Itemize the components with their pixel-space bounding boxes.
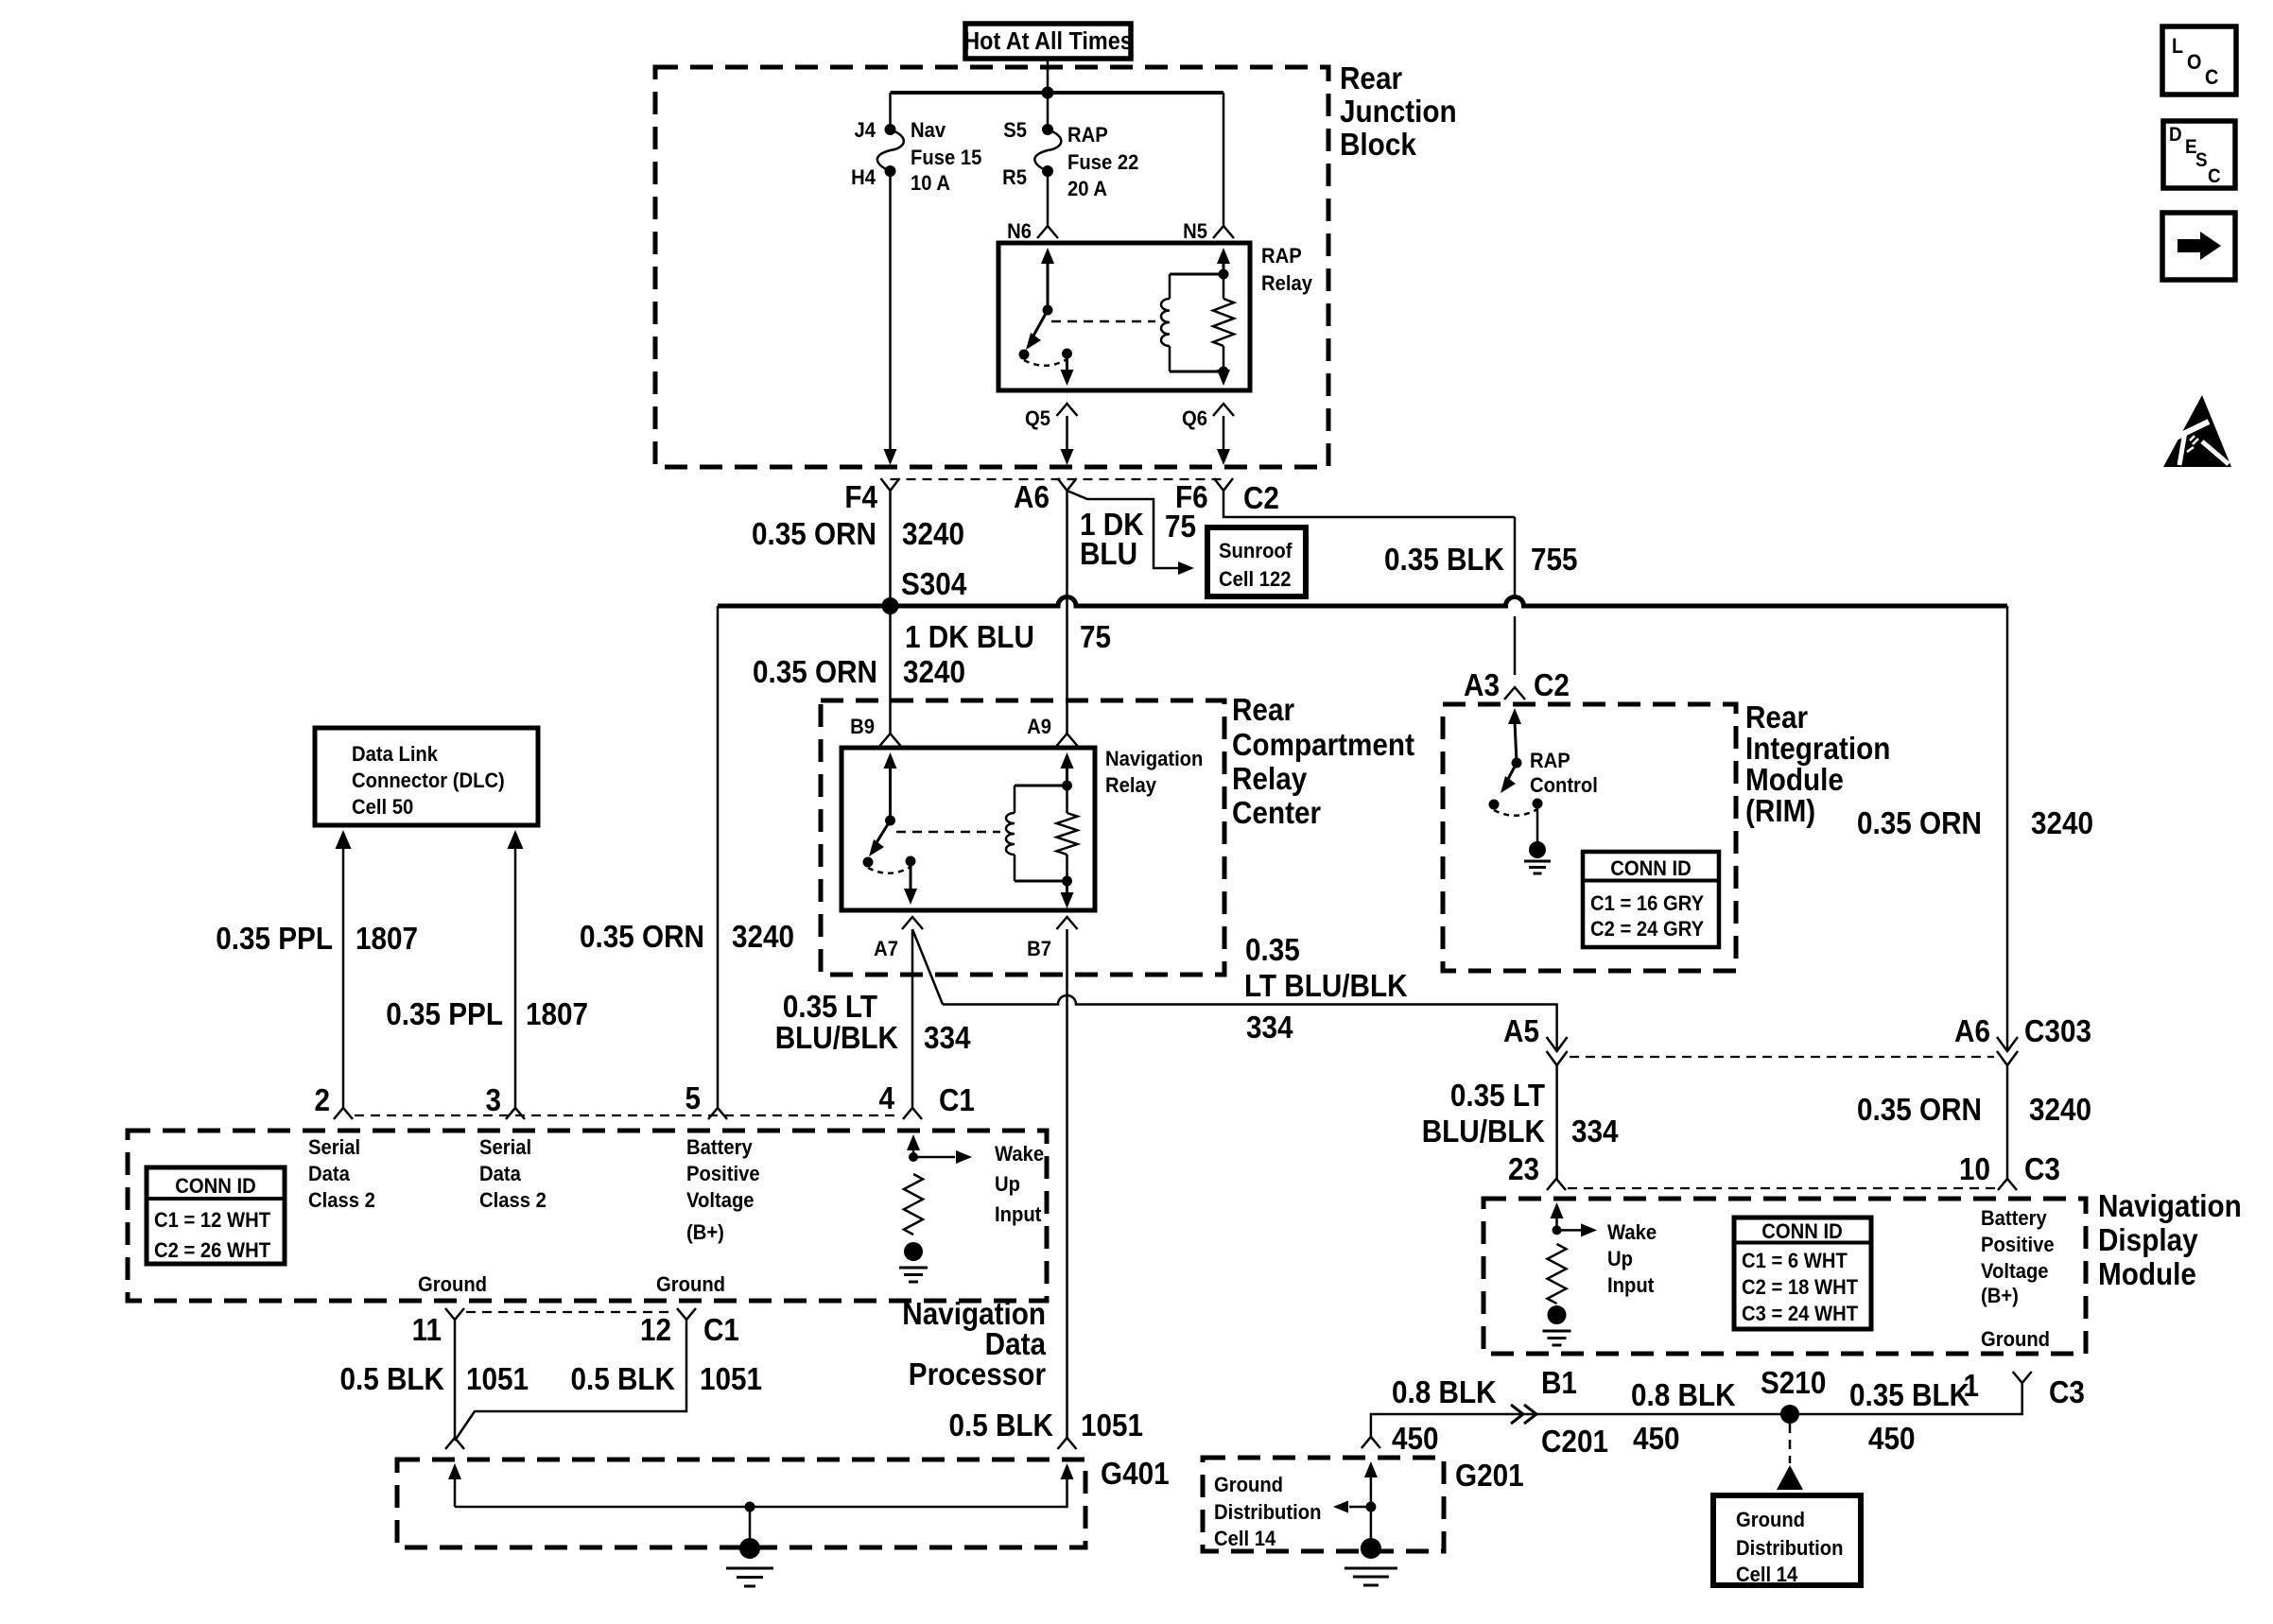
nav relay link dashed [896, 831, 1000, 834]
svg-text:11: 11 [412, 1313, 442, 1348]
svg-text:Voltage: Voltage [1981, 1260, 2049, 1283]
svg-text:RAP: RAP [1261, 245, 1302, 268]
svg-text:23: 23 [1508, 1152, 1539, 1187]
legend arrow box [2162, 213, 2235, 280]
svg-text:BLU/BLK: BLU/BLK [775, 1021, 899, 1056]
svg-text:Input: Input [995, 1203, 1041, 1226]
svg-text:450: 450 [1392, 1422, 1439, 1457]
ESD warning triangle [2163, 395, 2231, 467]
wire A5 to pin23 [1555, 1065, 1558, 1179]
svg-text:C1: C1 [939, 1083, 975, 1118]
RAP relay link dashed [1051, 320, 1155, 323]
svg-text:3240: 3240 [732, 920, 794, 955]
svg-text:C2: C2 [1243, 481, 1279, 516]
wire pin3 to DLC [508, 830, 524, 849]
svg-text:(B+): (B+) [1981, 1285, 2019, 1307]
connector line ndp bottom [466, 1311, 675, 1313]
svg-text:0.5 BLK: 0.5 BLK [948, 1408, 1053, 1443]
ndm wake node [1553, 1225, 1562, 1235]
G401 ground [739, 1538, 760, 1559]
nav relay contact arc [868, 867, 911, 873]
svg-text:C2 = 18 WHT: C2 = 18 WHT [1742, 1276, 1858, 1299]
svg-text:C1 = 12 WHT: C1 = 12 WHT [154, 1209, 270, 1232]
svg-text:Class 2: Class 2 [479, 1189, 547, 1212]
RAP control pin arrow [1508, 708, 1521, 724]
connector line ndp top [355, 1114, 901, 1116]
RAP control pivot [1512, 758, 1522, 769]
svg-text:3: 3 [485, 1083, 501, 1118]
connector A6 C303 [1997, 1037, 2018, 1051]
svg-text:G201: G201 [1455, 1459, 1524, 1494]
wire top bus [891, 91, 1224, 95]
connector A9 [1057, 734, 1078, 746]
legend DESC box [2163, 121, 2235, 188]
svg-text:10: 10 [1959, 1152, 1990, 1187]
wire pin2 to DLC [336, 830, 352, 849]
svg-text:Data: Data [308, 1163, 350, 1185]
RAP relay out Q5 [1066, 354, 1068, 371]
connector pin11 [445, 1308, 464, 1320]
nav relay coil [1014, 786, 1016, 813]
connector pin12 [677, 1308, 696, 1320]
svg-text:3240: 3240 [903, 655, 965, 690]
module box G201 [1203, 1458, 1444, 1551]
RAP relay pin N6 arrow [1041, 248, 1054, 264]
connector G401 left [445, 1438, 464, 1449]
svg-text:CONN ID: CONN ID [1761, 1220, 1842, 1243]
callout box Ground Distribution Cell 14 [1713, 1495, 1861, 1585]
svg-text:Up: Up [995, 1173, 1020, 1196]
ndp wake ground [904, 1242, 923, 1261]
svg-text:Cell 50: Cell 50 [352, 796, 413, 819]
wire A7 diagonal [912, 929, 943, 1005]
connector C2 rjb [1214, 478, 1233, 491]
fuse F2 RAP Fuse 22 [1042, 124, 1053, 135]
svg-text:S5: S5 [1003, 119, 1027, 142]
svg-text:LT BLU/BLK: LT BLU/BLK [1244, 969, 1408, 1004]
connector line ndm top [1568, 1187, 1996, 1189]
svg-text:12: 12 [640, 1313, 671, 1348]
connector pin1 C3 [2013, 1372, 2032, 1383]
RAP relay pin N5 arrow [1217, 248, 1230, 264]
module box Rear Integration Module [1443, 704, 1736, 971]
module box Rear Junction Block [655, 67, 1328, 467]
svg-text:450: 450 [1868, 1422, 1916, 1457]
connector pin10 [1998, 1179, 2017, 1190]
G401 node [745, 1502, 755, 1512]
svg-text:0.35 BLK: 0.35 BLK [1849, 1378, 1969, 1413]
svg-text:C2: C2 [1534, 668, 1570, 703]
svg-text:C3 = 24 WHT: C3 = 24 WHT [1742, 1303, 1858, 1325]
svg-text:Cell 14: Cell 14 [1736, 1564, 1797, 1586]
svg-text:N5: N5 [1183, 220, 1207, 243]
wire ndm ground run [1371, 1383, 2022, 1437]
svg-text:C303: C303 [2024, 1014, 2091, 1049]
RAP relay out Q6 [1223, 371, 1225, 373]
svg-text:B1: B1 [1541, 1366, 1577, 1401]
G201 node [1365, 1502, 1376, 1512]
wire Q6 drop [1223, 416, 1225, 452]
ndp wake arrow up [907, 1134, 920, 1150]
G201 left arrow [1349, 1506, 1371, 1509]
svg-text:0.35 ORN: 0.35 ORN [753, 655, 877, 690]
svg-text:5: 5 [685, 1081, 701, 1116]
svg-text:3240: 3240 [902, 517, 964, 552]
connector pin4 [903, 1108, 922, 1119]
nav relay resistor [1057, 813, 1078, 855]
svg-text:(B+): (B+) [686, 1221, 724, 1244]
G401 bus [455, 1477, 1067, 1507]
wire S304 bus [718, 597, 2007, 607]
svg-text:1807: 1807 [356, 922, 418, 957]
RAP relay resistor [1213, 299, 1234, 346]
svg-text:Ground: Ground [1981, 1328, 2050, 1351]
wire A6 to A9 [1066, 491, 1068, 734]
svg-text:C2 = 24 GRY: C2 = 24 GRY [1590, 918, 1704, 941]
connector pin5 [708, 1108, 727, 1119]
svg-text:Navigation: Navigation [1105, 748, 1203, 770]
connector Q6 [1213, 404, 1234, 416]
svg-text:3240: 3240 [2029, 1093, 2091, 1128]
nav relay contact a [863, 857, 874, 868]
connector B7 [1057, 917, 1078, 929]
conn id box NDP [147, 1167, 285, 1264]
svg-text:C201: C201 [1541, 1425, 1608, 1460]
wire N5 feed [1223, 93, 1225, 226]
relay box RAP Relay [998, 243, 1250, 390]
connector N5 [1213, 226, 1234, 238]
svg-text:Nav: Nav [911, 119, 946, 142]
svg-text:0.35 ORN: 0.35 ORN [1857, 806, 1982, 841]
svg-text:Center: Center [1232, 796, 1321, 831]
callout box Sunroof Cell 122 [1207, 527, 1306, 596]
svg-text:1051: 1051 [1081, 1408, 1143, 1443]
wire B9 seg [889, 606, 892, 734]
wire 334 run [943, 995, 1557, 1051]
svg-text:C2 = 26 WHT: C2 = 26 WHT [154, 1239, 270, 1262]
wire F4 drop [889, 171, 892, 452]
svg-text:0.35 PPL: 0.35 PPL [386, 997, 503, 1032]
module box G401 [397, 1460, 1085, 1547]
svg-text:C1 = 16 GRY: C1 = 16 GRY [1590, 892, 1704, 915]
svg-text:Fuse 15: Fuse 15 [911, 147, 982, 169]
RAP control ground [1529, 841, 1546, 858]
svg-text:0.35: 0.35 [1245, 933, 1300, 968]
svg-text:S: S [2195, 149, 2208, 171]
connector G401 right [1058, 1438, 1077, 1449]
svg-text:F4: F4 [844, 480, 877, 515]
arrow C2 at RJB edge [1217, 449, 1230, 465]
RAP relay switch blade [1032, 310, 1048, 337]
wire A6 to pin10 [2006, 1065, 2009, 1179]
node S210 [1780, 1405, 1799, 1424]
svg-text:Module: Module [2098, 1257, 2196, 1292]
svg-text:L: L [2172, 35, 2183, 58]
svg-text:(RIM): (RIM) [1745, 794, 1815, 829]
connector pin3 [506, 1108, 525, 1119]
G401 left arrow [448, 1463, 461, 1479]
svg-text:Relay: Relay [1232, 762, 1308, 797]
connector A3 C2 [1504, 687, 1525, 700]
nav relay out A7 [910, 861, 912, 890]
svg-text:Positive: Positive [686, 1163, 760, 1185]
wire F4 to S304 [889, 491, 892, 606]
svg-text:C: C [2208, 165, 2221, 187]
RAP relay switch pivot [1043, 305, 1053, 316]
wire fuse1 feed [889, 93, 892, 130]
svg-text:C3: C3 [2024, 1152, 2060, 1187]
connector line C303 [1570, 1056, 1994, 1058]
svg-text:CONN ID: CONN ID [175, 1175, 255, 1198]
G201 ground [1361, 1538, 1381, 1559]
svg-text:0.35 ORN: 0.35 ORN [1857, 1093, 1982, 1128]
connector pin2 [334, 1108, 353, 1119]
svg-text:0.8 BLK: 0.8 BLK [1631, 1378, 1736, 1413]
S210 dashed stub [1789, 1424, 1792, 1463]
wire B7 drop [1066, 929, 1068, 1438]
RAP control ground wire [1536, 803, 1539, 844]
svg-text:Wake: Wake [1607, 1221, 1657, 1244]
svg-text:Serial: Serial [308, 1136, 360, 1159]
svg-text:1 DK BLU: 1 DK BLU [905, 620, 1034, 655]
power label box Hot At All Times [965, 24, 1131, 59]
svg-text:C1 = 6 WHT: C1 = 6 WHT [1742, 1250, 1848, 1272]
svg-text:A6: A6 [1014, 480, 1050, 515]
connector N6 [1037, 226, 1058, 238]
svg-text:Display: Display [2098, 1223, 2198, 1258]
RAP control blade [1507, 763, 1517, 781]
RAP relay contact b [1062, 349, 1072, 359]
connector A6 [1058, 478, 1077, 491]
svg-text:0.35 LT: 0.35 LT [1450, 1079, 1545, 1114]
svg-text:RAP: RAP [1530, 750, 1570, 772]
svg-text:334: 334 [1571, 1114, 1619, 1149]
svg-text:Rear: Rear [1232, 693, 1294, 728]
svg-text:Connector (DLC): Connector (DLC) [352, 769, 505, 792]
svg-text:Wake: Wake [995, 1143, 1044, 1166]
svg-text:Serial: Serial [479, 1136, 531, 1159]
svg-text:S210: S210 [1761, 1366, 1826, 1401]
wire hot feed [1047, 59, 1050, 93]
svg-text:Ground: Ground [1736, 1509, 1805, 1531]
connector F4 [881, 478, 900, 491]
svg-text:A5: A5 [1503, 1014, 1539, 1049]
svg-text:D: D [2169, 124, 2182, 146]
ndm wake resistor [1548, 1244, 1567, 1304]
wire bus right drop [2006, 606, 2009, 1051]
svg-text:20 A: 20 A [1067, 178, 1107, 200]
svg-text:Distribution: Distribution [1214, 1501, 1321, 1524]
wire bus left drop [717, 606, 720, 1108]
wire pin12 jog [455, 1320, 686, 1441]
G401 ground stem [749, 1507, 752, 1541]
svg-text:Relay: Relay [1261, 272, 1312, 295]
nav relay switch pivot [885, 816, 895, 826]
svg-text:Up: Up [1607, 1248, 1633, 1270]
svg-text:0.35 PPL: 0.35 PPL [216, 922, 333, 957]
svg-text:Q6: Q6 [1182, 407, 1207, 430]
svg-text:C3: C3 [2049, 1375, 2085, 1410]
callout box Data Link Connector [315, 728, 538, 825]
svg-text:A7: A7 [874, 938, 898, 960]
RAP relay contact arc [1024, 359, 1067, 366]
svg-text:A6: A6 [1954, 1014, 1990, 1049]
svg-text:Block: Block [1340, 128, 1416, 163]
arrow A6 at RJB edge [1061, 449, 1074, 465]
conn id box RIM [1583, 852, 1719, 947]
RAP relay contact a [1019, 350, 1030, 360]
svg-text:Hot At All Times: Hot At All Times [963, 28, 1132, 55]
nav relay node top [1062, 781, 1072, 791]
svg-text:Voltage: Voltage [686, 1189, 755, 1212]
svg-text:0.35 LT: 0.35 LT [783, 990, 877, 1025]
svg-text:Fuse 22: Fuse 22 [1067, 151, 1138, 174]
fuse F1 Nav Fuse 15 [885, 124, 896, 135]
svg-text:N6: N6 [1007, 220, 1032, 243]
svg-text:0.5 BLK: 0.5 BLK [339, 1362, 444, 1397]
svg-text:Relay: Relay [1105, 774, 1156, 797]
legend LOC box [2162, 26, 2236, 95]
svg-text:RAP: RAP [1067, 124, 1108, 147]
svg-text:Module: Module [1745, 763, 1844, 798]
svg-text:334: 334 [924, 1021, 971, 1056]
connector pin23 [1547, 1179, 1566, 1190]
wire Q5 drop [1066, 416, 1068, 452]
svg-text:Class 2: Class 2 [308, 1189, 375, 1212]
svg-text:Sunroof: Sunroof [1219, 540, 1293, 562]
svg-text:B7: B7 [1027, 938, 1051, 960]
svg-text:Ground: Ground [656, 1273, 725, 1296]
connector A5 [1547, 1037, 1568, 1051]
connector A7 [902, 917, 923, 929]
nav relay contact b [906, 856, 916, 867]
svg-text:Q5: Q5 [1025, 407, 1050, 430]
nav relay pin A9 arrow [1061, 752, 1074, 769]
ndp wake right arrow [913, 1156, 955, 1159]
arrow F4 at RJB edge [884, 449, 897, 465]
svg-text:75: 75 [1080, 620, 1111, 655]
svg-text:Control: Control [1530, 774, 1598, 797]
svg-text:755: 755 [1531, 543, 1578, 578]
wire pin11 drop [454, 1320, 457, 1438]
nav relay coil bottom wire [1015, 880, 1067, 883]
svg-text:3240: 3240 [2031, 806, 2093, 841]
svg-text:Navigation: Navigation [2098, 1189, 2242, 1224]
svg-text:4: 4 [878, 1081, 894, 1116]
svg-text:450: 450 [1633, 1422, 1680, 1457]
svg-text:A9: A9 [1027, 716, 1051, 738]
node S304 [882, 597, 899, 614]
svg-text:J4: J4 [854, 119, 876, 142]
svg-text:BLU/BLK: BLU/BLK [1422, 1114, 1546, 1149]
svg-text:0.5 BLK: 0.5 BLK [570, 1362, 675, 1397]
RAP control contact b [1533, 799, 1543, 809]
svg-text:S304: S304 [901, 567, 967, 602]
svg-text:Cell 122: Cell 122 [1219, 568, 1291, 591]
svg-text:0.35 BLK: 0.35 BLK [1384, 543, 1504, 578]
svg-text:Processor: Processor [909, 1357, 1046, 1392]
svg-text:Input: Input [1607, 1274, 1654, 1297]
svg-text:Junction: Junction [1340, 95, 1457, 130]
RAP control arc [1494, 809, 1537, 816]
svg-text:Battery: Battery [1981, 1207, 2047, 1230]
RAP control contact a [1489, 800, 1500, 810]
wire A7 to pin4 [911, 929, 914, 1108]
svg-text:O: O [2187, 51, 2201, 74]
connector C201 [1511, 1405, 1523, 1424]
svg-text:0.35 ORN: 0.35 ORN [580, 920, 704, 955]
svg-text:Ground: Ground [1214, 1474, 1283, 1496]
module box Rear Compartment Relay Center [821, 700, 1224, 975]
G401 right arrow [1061, 1463, 1074, 1479]
module box Navigation Display Module [1484, 1199, 2086, 1354]
nav relay coil top wire [1015, 785, 1067, 787]
svg-text:Positive: Positive [1981, 1234, 2055, 1256]
svg-text:1051: 1051 [466, 1362, 529, 1397]
connector G201 entry [1362, 1437, 1380, 1448]
svg-text:C1: C1 [703, 1313, 739, 1348]
svg-text:BLU: BLU [1080, 537, 1137, 572]
wire 755 drop [1514, 517, 1517, 675]
wire fuse2 feed [1047, 93, 1050, 130]
RAP relay coil [1169, 274, 1171, 299]
nav relay node bottom [1062, 876, 1072, 887]
RAP relay coil top wire [1170, 273, 1223, 276]
svg-text:Rear: Rear [1745, 700, 1808, 735]
svg-text:CONN ID: CONN ID [1610, 857, 1691, 880]
ndp wake resistor [904, 1174, 923, 1235]
svg-text:Compartment: Compartment [1232, 728, 1414, 763]
svg-text:334: 334 [1246, 1011, 1293, 1045]
svg-text:Cell 14: Cell 14 [1214, 1528, 1275, 1550]
svg-text:Data Link: Data Link [352, 743, 438, 766]
module box Navigation Data Processor [128, 1131, 1047, 1301]
svg-text:H4: H4 [851, 166, 876, 189]
svg-text:10 A: 10 A [911, 172, 950, 195]
nav relay out B7 [1066, 881, 1068, 896]
svg-text:R5: R5 [1002, 166, 1027, 189]
svg-text:1051: 1051 [700, 1362, 762, 1397]
svg-text:1807: 1807 [526, 997, 588, 1032]
nav relay pin B9 arrow [884, 752, 897, 769]
svg-text:A3: A3 [1464, 668, 1500, 703]
svg-text:0.35 ORN: 0.35 ORN [752, 517, 876, 552]
connector Q5 [1057, 404, 1078, 416]
svg-text:G401: G401 [1101, 1457, 1170, 1492]
ndp wake node [909, 1152, 918, 1162]
node hot junction [1042, 87, 1054, 99]
svg-text:Integration: Integration [1745, 732, 1890, 767]
RAP relay node bottom [1219, 367, 1229, 377]
wire C2 run [1223, 491, 1515, 517]
svg-text:Ground: Ground [418, 1273, 487, 1296]
svg-text:Data: Data [479, 1163, 521, 1185]
connector B9 [880, 734, 901, 746]
nav relay switch blade [876, 821, 891, 844]
ndm wake ground [1548, 1305, 1567, 1324]
wire F6 branch [1067, 491, 1179, 568]
svg-text:Battery: Battery [686, 1136, 753, 1159]
connector line under RJB [891, 478, 1224, 480]
conn id box NDM [1734, 1218, 1871, 1329]
relay box Navigation Relay [842, 748, 1095, 910]
ndm wake arrow up [1551, 1202, 1564, 1218]
RAP relay coil bottom wire [1170, 371, 1223, 373]
svg-text:0.8 BLK: 0.8 BLK [1392, 1375, 1497, 1410]
legend arrow icon [2178, 239, 2201, 252]
svg-text:75: 75 [1165, 510, 1196, 544]
svg-text:B9: B9 [850, 716, 875, 738]
